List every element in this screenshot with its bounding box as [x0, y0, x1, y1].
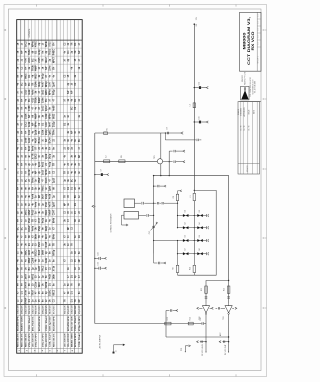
inductor L3 in supply rail: [189, 103, 195, 108]
svg-text:4n2p: 4n2p: [48, 161, 51, 167]
svg-text:TR: TR: [22, 267, 24, 270]
svg-text:R5: R5: [107, 128, 109, 130]
capacitor C23 stub: [153, 185, 166, 187]
svg-text:1k22: 1k22: [43, 89, 45, 95]
svg-text:47X7: 47X7: [38, 217, 41, 223]
svg-text:BC: BC: [29, 98, 31, 102]
svg-text:TR: TR: [32, 82, 34, 85]
svg-text:NP: NP: [79, 299, 81, 303]
svg-text:BB405 VARI: BB405 VARI: [21, 316, 24, 331]
inductor L2: [104, 155, 110, 162]
svg-text:6822: 6822: [53, 113, 55, 119]
svg-text:RES 10k 5%: RES 10k 5%: [26, 333, 28, 347]
svg-text:4nTR: 4nTR: [48, 201, 51, 207]
svg-text:4n68: 4n68: [52, 105, 55, 111]
svg-text:D14n: D14n: [45, 177, 48, 183]
svg-text:C15: C15: [199, 116, 201, 119]
svg-text:BC547B NPN: BC547B NPN: [52, 316, 55, 331]
svg-text:NP: NP: [29, 114, 31, 118]
svg-text:TP1: TP1: [181, 348, 183, 351]
svg-text:BC: BC: [22, 82, 24, 86]
svg-text:4u15: 4u15: [38, 265, 41, 271]
svg-text:R9: R9: [173, 267, 175, 269]
svg-text:NP: NP: [22, 50, 24, 54]
svg-text:2p4k: 2p4k: [45, 153, 48, 159]
diode D7 varactor: [177, 248, 195, 255]
svg-text:NP2p: NP2p: [53, 249, 55, 255]
svg-text:1:1: 1:1: [258, 28, 260, 30]
op-amp U1 buffer: [199, 303, 210, 352]
svg-text:ISSUE: ISSUE: [249, 110, 251, 115]
svg-text:1kBC: 1kBC: [46, 89, 48, 95]
value label AFC: [219, 332, 222, 336]
svg-text:MTL FILM 1%: MTL FILM 1%: [53, 305, 55, 314]
svg-text:10.7.96: 10.7.96: [241, 125, 243, 130]
svg-text:2p4n: 2p4n: [38, 161, 41, 167]
svg-text:TR: TR: [32, 219, 34, 222]
wire tuning rail vertical: [153, 203, 154, 254]
svg-text:MTL FILM 1%: MTL FILM 1%: [32, 316, 34, 331]
svg-text:100n 63V CER: 100n 63V CER: [64, 333, 66, 347]
svg-text:NP: NP: [18, 267, 20, 271]
svg-text:BC: BC: [79, 138, 81, 142]
svg-text:8n47: 8n47: [48, 121, 51, 127]
wire feedback loop: [153, 175, 229, 281]
svg-text:SCORESBY VIC 3179: SCORESBY VIC 3179: [252, 79, 254, 94]
svg-text:C7: C7: [100, 169, 102, 171]
svg-text:C247: C247: [52, 209, 55, 215]
svg-text:TR: TR: [43, 58, 45, 61]
diode D6 varactor: [194, 235, 208, 242]
svg-text:1515: 1515: [26, 89, 28, 95]
svg-text:NP: NP: [79, 50, 81, 54]
svg-text:RES 10k 5%: RES 10k 5%: [22, 333, 24, 347]
svg-text:RX VCO OUT: RX VCO OUT: [225, 345, 227, 356]
trimmer capacitor CV1: [149, 222, 158, 234]
capacitor C6 coupling: [167, 127, 169, 134]
svg-text:4u4k: 4u4k: [31, 193, 34, 199]
svg-text:SIMOCO: SIMOCO: [242, 74, 244, 82]
svg-text:TR: TR: [71, 283, 73, 286]
svg-text:X78n: X78n: [26, 289, 28, 295]
svg-text:2215: 2215: [39, 57, 41, 63]
svg-text:TRTR: TRTR: [46, 169, 48, 175]
svg-text:684n: 684n: [52, 233, 55, 239]
wire modulation line: [95, 323, 202, 325]
svg-text:3kX7: 3kX7: [43, 193, 45, 199]
node U2 output arrow: [232, 307, 237, 309]
svg-text:R10: R10: [189, 267, 191, 270]
svg-text:TR: TR: [39, 130, 41, 133]
svg-text:100n 63V CER: 100n 63V CER: [71, 316, 73, 331]
svg-text:D7: D7: [185, 248, 187, 250]
svg-text:10.7.96: 10.7.96: [249, 125, 251, 130]
svg-text:3kBC: 3kBC: [26, 249, 28, 255]
capacitor C10 emitter stub: [163, 161, 185, 163]
capacitor C16: [205, 297, 208, 298]
wire matrix screen outline: [178, 190, 217, 275]
svg-text:100n 63V CER: 100n 63V CER: [49, 305, 51, 314]
svg-text:BC4n: BC4n: [48, 137, 51, 144]
svg-text:4u4u: 4u4u: [31, 89, 34, 95]
svg-text:TR3k: TR3k: [32, 65, 34, 71]
wire left supply vertical: [94, 133, 96, 324]
svg-text:BB405 VARI: BB405 VARI: [74, 305, 77, 314]
svg-text:NP: NP: [68, 227, 70, 231]
svg-text:BC547B NPN: BC547B NPN: [17, 316, 20, 331]
svg-text:C268: C268: [32, 257, 34, 263]
svg-text:COIL 10uH: COIL 10uH: [18, 305, 20, 314]
svg-text:3k2p: 3k2p: [39, 81, 41, 87]
svg-text:BC: BC: [22, 227, 24, 231]
capacitor C24 stub: [94, 252, 106, 260]
svg-text:8n4u: 8n4u: [31, 145, 34, 151]
svg-text:1022: 1022: [29, 129, 31, 135]
node U1 output arrow: [210, 307, 214, 309]
svg-text:R14: R14: [190, 317, 192, 320]
wire tank rail upper: [153, 176, 155, 204]
wire emitter vertical: [160, 164, 161, 177]
svg-text:NP: NP: [71, 130, 73, 134]
svg-text:MTL FILM 1%: MTL FILM 1%: [39, 305, 41, 314]
capacitor C19 coupling: [200, 318, 206, 325]
capacitor C21 stub: [197, 341, 207, 343]
svg-text:2pX7: 2pX7: [53, 201, 55, 207]
svg-text:C6: C6: [167, 127, 169, 129]
svg-text:1522: 1522: [39, 241, 41, 247]
wire feedback link vertical: [168, 151, 170, 176]
node page link arrow left: [92, 205, 95, 207]
net label 9V rail: [100, 334, 102, 349]
resistor R10: [189, 254, 195, 276]
svg-text:TR: TR: [64, 171, 66, 174]
svg-text:NP22: NP22: [32, 273, 34, 279]
svg-text:3k2p: 3k2p: [46, 225, 48, 231]
svg-text:R415: R415: [31, 209, 34, 215]
svg-text:D5: D5: [185, 235, 187, 237]
svg-text:15NP: 15NP: [39, 177, 41, 183]
diode D1 varactor: [177, 210, 195, 217]
svg-text:COIL 10uH: COIL 10uH: [79, 333, 81, 347]
svg-text:R4NP: R4NP: [28, 225, 31, 232]
svg-text:D6: D6: [199, 235, 201, 237]
svg-text:684k: 684k: [52, 217, 55, 223]
svg-text:TR: TR: [64, 195, 66, 198]
svg-text:BC: BC: [29, 267, 31, 271]
svg-text:4kNP: 4kNP: [35, 65, 38, 71]
svg-text:R4BC: R4BC: [52, 49, 55, 56]
svg-text:3k10: 3k10: [39, 281, 41, 287]
svg-text:R11: R11: [201, 288, 203, 291]
svg-text:224n: 224n: [28, 57, 31, 63]
svg-text:4700p 2% NPO: 4700p 2% NPO: [35, 333, 38, 347]
resistor R5: [104, 128, 109, 134]
svg-text:NP: NP: [26, 82, 28, 86]
svg-text:CV1: CV1: [149, 231, 151, 235]
resistor R14: [188, 317, 193, 325]
svg-text:8n2p: 8n2p: [43, 73, 45, 79]
svg-text:NP8n: NP8n: [49, 113, 51, 119]
svg-text:4747: 4747: [25, 57, 28, 63]
wire matrix lower feed: [154, 241, 178, 254]
svg-text:TR: TR: [26, 171, 28, 174]
wire base feed horizontal: [95, 160, 158, 162]
svg-text:1k68: 1k68: [43, 249, 45, 255]
capacitor C18 interstage: [216, 307, 226, 309]
svg-text:10C2: 10C2: [26, 121, 28, 127]
svg-text:COIL 10uH: COIL 10uH: [46, 316, 48, 331]
svg-text:68C2: 68C2: [53, 289, 55, 295]
svg-text:L2: L2: [106, 155, 108, 157]
svg-text:R6: R6: [121, 155, 123, 157]
svg-text:TR1: TR1: [154, 155, 156, 159]
svg-text:NP4u: NP4u: [48, 89, 51, 95]
svg-text:4k15: 4k15: [28, 249, 31, 255]
svg-text:47BC: 47BC: [35, 41, 38, 47]
svg-text:COIL 10uH: COIL 10uH: [71, 305, 73, 314]
svg-text:8n2p: 8n2p: [43, 217, 45, 223]
svg-text:TEL 03 9730 3800: TEL 03 9730 3800: [255, 81, 257, 93]
svg-text:BCC2: BCC2: [36, 249, 38, 256]
svg-text:COIL 10uH: COIL 10uH: [75, 316, 77, 331]
svg-text:100n 63V CER: 100n 63V CER: [46, 333, 48, 347]
svg-text:RX VCO LEVEL: RX VCO LEVEL: [202, 344, 204, 356]
svg-text:2pC2: 2pC2: [46, 105, 48, 111]
svg-text:4700p 2% NPO: 4700p 2% NPO: [28, 333, 31, 347]
svg-text:TR: TR: [71, 42, 73, 45]
svg-text:NP: NP: [32, 122, 34, 126]
svg-text:TRX7: TRX7: [32, 289, 34, 296]
op-amp U2 buffer: [223, 303, 232, 352]
svg-text:CER 2p2 50V: CER 2p2 50V: [43, 305, 45, 314]
svg-text:D12p: D12p: [53, 121, 55, 127]
node +12V supply terminal: [194, 16, 199, 26]
net label TX VCO out: [225, 345, 227, 356]
svg-text:SYMBOL: SYMBOL: [29, 28, 31, 38]
svg-text:C25: C25: [98, 262, 100, 265]
capacitor C11: [135, 202, 154, 205]
svg-text:TRC2: TRC2: [43, 265, 45, 272]
svg-text:NP: NP: [79, 154, 81, 158]
svg-text:NP: NP: [46, 66, 48, 70]
svg-text:NP: NP: [64, 202, 66, 206]
svg-text:8nR4: 8nR4: [45, 209, 48, 215]
svg-text:4n2p: 4n2p: [38, 49, 41, 55]
svg-text:1n2p: 1n2p: [46, 193, 48, 199]
svg-text:158n: 158n: [43, 97, 45, 103]
svg-text:BC547B NPN: BC547B NPN: [67, 316, 70, 331]
svg-text:BC547B NPN: BC547B NPN: [45, 305, 48, 314]
svg-text:4700p 2% NPO: 4700p 2% NPO: [78, 305, 81, 314]
svg-text:CHECKED: CHECKED: [241, 107, 243, 116]
capacitor C25 stub: [94, 262, 106, 270]
svg-text:10.7.96: 10.7.96: [244, 125, 246, 130]
svg-text:8nNP: 8nNP: [39, 97, 41, 103]
node RF out arrow: [181, 132, 183, 134]
svg-text:2p8n: 2p8n: [49, 185, 51, 191]
connector J1 stub: [113, 344, 126, 354]
svg-text:BC: BC: [71, 106, 73, 110]
svg-text:4700p 2% NPO: 4700p 2% NPO: [78, 316, 81, 331]
svg-text:D14k: D14k: [35, 81, 38, 87]
wire collector feed horizontal: [95, 132, 181, 134]
svg-text:1270 FERNTREE GULLY RD: 1270 FERNTREE GULLY RD: [250, 76, 252, 97]
svg-text:BC: BC: [18, 227, 20, 231]
diode D5 varactor: [177, 235, 195, 242]
svg-text:RX VCO: RX VCO: [251, 31, 255, 51]
diode D3 varactor: [177, 222, 195, 229]
svg-text:D1BC: D1BC: [49, 289, 51, 296]
svg-text:R42p: R42p: [52, 89, 55, 95]
wire matrix upper feed: [154, 202, 178, 204]
svg-text:3kC2: 3kC2: [46, 57, 48, 63]
node U1 input arrow: [197, 307, 203, 309]
capacitor C22 stub: [219, 341, 229, 343]
svg-text:D4: D4: [199, 222, 201, 224]
svg-text:1n3k: 1n3k: [29, 121, 31, 127]
resistor R13: [165, 317, 171, 325]
svg-text:J1: J1: [116, 350, 118, 352]
svg-text:C247: C247: [45, 121, 48, 127]
svg-text:TR: TR: [71, 243, 73, 246]
diode D4 varactor: [194, 222, 208, 229]
svg-text:BC: BC: [71, 178, 73, 182]
svg-text:NP4u: NP4u: [31, 41, 34, 47]
wire AFC line: [166, 311, 229, 338]
svg-text:D3: D3: [185, 222, 187, 224]
svg-text:TR3: TR3: [223, 316, 225, 319]
svg-text:NP: NP: [71, 90, 73, 94]
svg-text:BC: BC: [75, 194, 77, 198]
svg-text:22NP: 22NP: [29, 209, 31, 215]
svg-text:1k8n: 1k8n: [53, 273, 55, 279]
svg-text:1510: 1510: [46, 201, 48, 207]
svg-text:X710: X710: [49, 41, 51, 47]
svg-text:BC: BC: [29, 82, 31, 86]
svg-text:NP: NP: [79, 259, 81, 263]
svg-text:4n4u: 4n4u: [35, 201, 38, 207]
svg-text:RES 10k 5%: RES 10k 5%: [29, 305, 31, 314]
svg-text:D1TR: D1TR: [29, 169, 31, 175]
svg-text:8n15: 8n15: [39, 249, 41, 255]
transistor TR1 oscillator: [154, 133, 162, 164]
svg-text:RES 10k 5%: RES 10k 5%: [18, 333, 20, 347]
resonator module A1: [124, 199, 135, 208]
svg-text:BC: BC: [26, 178, 28, 182]
svg-text:4kX7: 4kX7: [35, 137, 38, 143]
resonator module A2: [110, 212, 139, 233]
svg-text:CER 2p2 50V: CER 2p2 50V: [22, 305, 24, 314]
svg-text:4700p 2% NPO: 4700p 2% NPO: [42, 333, 45, 347]
svg-text:1nTR: 1nTR: [26, 273, 28, 279]
svg-text:1nBC: 1nBC: [26, 209, 28, 215]
svg-text:NP: NP: [39, 194, 41, 198]
svg-text:1n68: 1n68: [26, 137, 28, 143]
svg-text:L3: L3: [189, 104, 191, 106]
svg-text:NP2p: NP2p: [46, 81, 48, 87]
svg-text:TR: TR: [64, 299, 66, 302]
svg-text:4700p 2% NPO: 4700p 2% NPO: [67, 305, 70, 314]
svg-text:R415: R415: [45, 241, 48, 247]
svg-text:C21k: C21k: [46, 113, 48, 119]
svg-text:TR: TR: [75, 50, 77, 53]
svg-text:224u: 224u: [48, 65, 51, 71]
svg-text:TR8n: TR8n: [29, 49, 31, 55]
svg-text:NP: NP: [46, 138, 48, 142]
resistor R9: [173, 254, 179, 276]
svg-text:C24: C24: [98, 252, 100, 255]
svg-text:1nC2: 1nC2: [26, 41, 28, 47]
svg-text:X768: X768: [29, 105, 31, 111]
svg-text:L1: L1: [190, 196, 192, 198]
capacitor C12: [139, 214, 154, 217]
svg-text:R4TR: R4TR: [25, 281, 28, 287]
diode D8 varactor: [194, 248, 208, 255]
capacitor C7 hanging on rail: [94, 169, 109, 176]
svg-text:TR: TR: [22, 106, 24, 109]
svg-text:2pBC: 2pBC: [49, 129, 51, 135]
svg-text:4n4u: 4n4u: [31, 225, 34, 231]
svg-text:R13: R13: [167, 317, 169, 320]
svg-text:4n1k: 4n1k: [48, 273, 51, 279]
svg-text:BB405 VARI: BB405 VARI: [70, 333, 73, 347]
svg-text:15NP: 15NP: [29, 257, 31, 263]
svg-text:1n10: 1n10: [43, 169, 45, 175]
svg-text:8D-04231: 8D-04231: [247, 165, 249, 172]
svg-text:TR: TR: [22, 146, 24, 149]
capacitor C8 stub: [165, 132, 202, 141]
svg-text:4u22: 4u22: [28, 137, 31, 143]
capacitor C9 stub: [169, 150, 185, 152]
svg-text:D13k: D13k: [26, 113, 28, 119]
svg-text:X71k: X71k: [53, 265, 55, 271]
connector stub TP1: [181, 345, 190, 352]
svg-text:R12: R12: [223, 288, 225, 291]
svg-text:RES 10k 5%: RES 10k 5%: [53, 333, 55, 347]
svg-text:1n22: 1n22: [43, 105, 45, 111]
resistor R8 on matrix rail: [173, 190, 182, 228]
svg-text:C21n: C21n: [36, 281, 38, 287]
svg-text:100n 63V CER: 100n 63V CER: [32, 333, 34, 347]
diode D2 varactor: [194, 210, 208, 217]
svg-text:D1: D1: [185, 210, 187, 212]
svg-text:TR: TR: [53, 243, 55, 246]
svg-text:D2: D2: [199, 210, 201, 212]
svg-text:3k8n: 3k8n: [36, 233, 38, 239]
svg-text:NP: NP: [68, 90, 70, 94]
svg-text:2p10: 2p10: [53, 177, 55, 183]
svg-text:SH 1 OF 1: SH 1 OF 1: [258, 56, 260, 63]
inductor L1: [190, 190, 196, 254]
svg-text:COIL 10uH: COIL 10uH: [26, 305, 28, 314]
capacitor C13 stub: [154, 254, 166, 265]
svg-text:COIL 10uH: COIL 10uH: [32, 305, 34, 314]
svg-text:TR4n: TR4n: [52, 129, 55, 135]
capacitor C17: [227, 297, 230, 298]
svg-text:CERAMIC RESONATOR: CERAMIC RESONATOR: [110, 213, 113, 233]
svg-text:6810: 6810: [36, 73, 38, 79]
svg-text:COIL 10uH: COIL 10uH: [29, 316, 31, 331]
svg-text:1047: 1047: [48, 81, 51, 87]
svg-text:2p1k: 2p1k: [36, 129, 38, 135]
svg-text:TR: TR: [75, 299, 77, 302]
svg-text:3k47: 3k47: [45, 233, 48, 239]
svg-text:R4NP: R4NP: [25, 297, 28, 304]
svg-text:4n3k: 4n3k: [48, 193, 51, 199]
svg-text:D8: D8: [199, 248, 201, 250]
resistor R6: [119, 155, 125, 162]
svg-text:TR: TR: [79, 283, 81, 286]
